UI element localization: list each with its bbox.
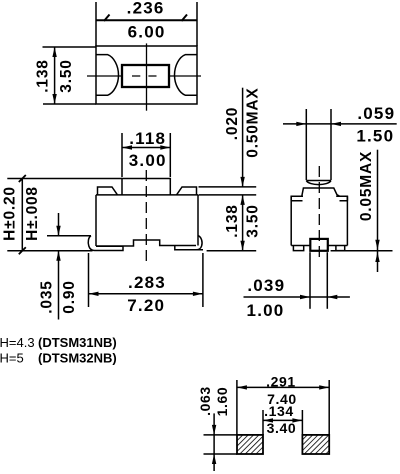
svg-text:.118: .118 — [129, 129, 166, 148]
dimension .236/6.00 line — [96, 19, 197, 21]
svg-text:1.00: 1.00 — [247, 301, 285, 320]
arrow down — [52, 94, 56, 104]
svg-text:H±0.20: H±0.20 — [2, 186, 19, 241]
side view right foot — [336, 246, 345, 251]
svg-text:.138: .138 — [34, 59, 51, 92]
top view center actuator rect — [122, 65, 169, 87]
side view centerline — [318, 166, 320, 262]
dimension .118/3.00 extension lines — [121, 133, 123, 177]
arrow left-out — [122, 145, 132, 149]
svg-text:3.50: 3.50 — [245, 204, 262, 237]
footprint pad bottom extension — [204, 453, 238, 455]
dimension .039/1.00 extension lines — [309, 252, 311, 309]
arrow left-in — [331, 122, 341, 126]
svg-text:.063: .063 — [197, 386, 213, 416]
front view stem — [122, 179, 170, 195]
front view body — [96, 195, 198, 246]
svg-text:.020: .020 — [224, 107, 241, 140]
front view right corner tab — [177, 187, 197, 195]
arrow right-in — [296, 122, 306, 126]
side view stem bottom sag — [306, 181, 331, 185]
arrow up — [52, 47, 56, 57]
side view center pad — [310, 239, 328, 251]
svg-text:.138: .138 — [224, 204, 241, 237]
dimension 0.05MAX line — [377, 150, 379, 272]
footprint pad top extension — [204, 434, 238, 436]
dimension .035/0.90 extension line — [47, 235, 91, 237]
svg-text:H±.008: H±.008 — [24, 186, 41, 241]
dimension .118/3.00 line — [122, 147, 170, 149]
front view right terminal — [175, 236, 203, 250]
front right dims: extension lines — [199, 186, 257, 188]
arrow up at body top — [240, 195, 244, 205]
side view stem sides — [305, 109, 307, 180]
dimension .283/7.20 extension lines — [88, 253, 90, 307]
dimension .134/3.40 line — [263, 419, 302, 421]
footprint left pad — [237, 435, 263, 454]
svg-text:3.50: 3.50 — [58, 59, 75, 92]
H dimension line — [21, 179, 23, 251]
side view left foot — [293, 246, 303, 251]
top view body outline — [96, 46, 197, 104]
arrow right-out — [193, 292, 203, 296]
dimension .059/1.50 line — [283, 123, 397, 125]
top view vertical centerline — [146, 43, 148, 110]
dimension .138/3.50 (top view) line — [54, 47, 56, 104]
dimension .291/7.40 line — [237, 386, 329, 388]
svg-text:3.40: 3.40 — [267, 420, 297, 436]
front view bottom profile — [96, 240, 196, 246]
svg-text:H=4.3(DTSM31NB): H=4.3(DTSM31NB) — [0, 335, 117, 350]
arrow left-out — [89, 292, 99, 296]
svg-text:.134: .134 — [264, 403, 294, 419]
side view body — [291, 196, 347, 245]
svg-text:.039: .039 — [247, 276, 285, 295]
svg-text:.236: .236 — [127, 0, 165, 17]
H dimension tick top — [19, 175, 26, 182]
seating plane extension (side) — [331, 250, 393, 252]
dimension .035/0.90 line upper + arrow down — [58, 213, 60, 236]
arrow up to seating — [375, 252, 379, 262]
front view left corner tab — [98, 187, 118, 195]
svg-text:H=5(DTSM32NB): H=5(DTSM32NB) — [0, 351, 117, 366]
dimension .236/6.00 tick right — [182, 15, 188, 22]
front view left terminal — [88, 236, 123, 251]
svg-text:6.00: 6.00 — [128, 23, 166, 42]
dimension .134/3.40 extension lines — [262, 410, 264, 435]
H dimension tick bottom — [19, 247, 26, 254]
dimension .283/7.20 line — [89, 293, 203, 295]
dimension .138/3.50 (top view) extension lines — [43, 46, 97, 48]
footprint right pad — [302, 435, 329, 454]
svg-text:7.20: 7.20 — [127, 296, 165, 315]
svg-text:1.50: 1.50 — [356, 127, 394, 146]
dimension .063/1.60 line — [213, 413, 215, 471]
dimension .020/0.50MAX line + arrow down — [242, 88, 244, 187]
side view left tab — [291, 196, 303, 201]
svg-text:0.90: 0.90 — [61, 280, 78, 313]
dimension .039/1.00 line — [244, 296, 350, 298]
svg-text:.283: .283 — [128, 273, 166, 292]
arrow left-in — [327, 295, 337, 299]
top view left contact bump — [96, 55, 119, 96]
dimension .291/7.40 extension lines — [236, 380, 238, 435]
svg-text:.291: .291 — [266, 374, 296, 390]
svg-text:0.50MAX: 0.50MAX — [245, 87, 262, 157]
dimension .035/0.90 line lower + arrow up — [58, 251, 60, 320]
side view shoulder — [302, 188, 340, 196]
H dimension extension line top — [7, 178, 122, 180]
svg-text:.059: .059 — [357, 104, 395, 123]
arrow right-in — [300, 295, 310, 299]
top view horizontal centerline — [87, 75, 201, 77]
svg-text:1.60: 1.60 — [214, 387, 230, 417]
H dimension extension line bottom (seating plane) — [7, 250, 92, 252]
arrow right-out — [160, 145, 170, 149]
side view right tab — [336, 196, 347, 201]
arrow down at seating — [240, 241, 244, 251]
dimension .236/6.00 tick left — [104, 15, 110, 22]
front view centerline — [145, 170, 147, 265]
dimension .236/6.00 extension lines — [95, 2, 97, 46]
svg-text:.035: .035 — [38, 280, 55, 313]
dimension .138/3.50 (front) line — [242, 195, 244, 251]
top view right contact bump — [175, 55, 198, 96]
arrow down to seating — [375, 240, 379, 250]
svg-text:0.05MAX: 0.05MAX — [358, 151, 375, 221]
svg-text:3.00: 3.00 — [129, 151, 167, 170]
